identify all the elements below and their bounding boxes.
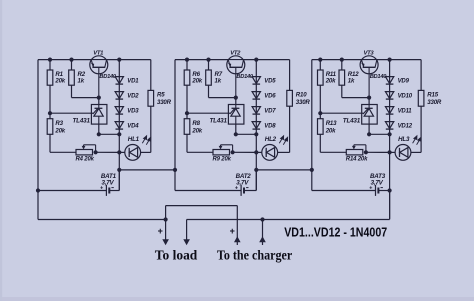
node BAT1 plus junction bbox=[36, 188, 40, 192]
node anode junction bbox=[97, 132, 101, 136]
wire series link BAT1- to BAT2+ bbox=[119, 169, 175, 171]
battery BAT3 3,7V bbox=[312, 190, 376, 192]
wire top rail (emitter side) bbox=[38, 59, 91, 61]
svg-text:BD140: BD140 bbox=[99, 74, 117, 80]
node diode chain top bbox=[117, 58, 121, 62]
node LED tap bbox=[388, 150, 392, 154]
wire charger plus link bbox=[166, 205, 238, 207]
wire battery BAT2 plus / left rail bbox=[174, 60, 176, 191]
wire TL431 ref bbox=[320, 112, 361, 114]
svg-text:3,7V: 3,7V bbox=[371, 180, 384, 187]
svg-text:R8: R8 bbox=[192, 120, 200, 127]
svg-text:20k: 20k bbox=[191, 127, 202, 134]
resistor R12 1k bbox=[341, 60, 343, 70]
diode VD8 1N4007 bbox=[252, 122, 260, 129]
wire wiper to diode chain / LED bbox=[366, 151, 390, 153]
wire TL431 ref bbox=[187, 112, 228, 114]
wire TL431 anode bbox=[98, 124, 100, 134]
node base junction bbox=[97, 96, 101, 100]
battery BAT2 3,7V bbox=[255, 170, 257, 191]
svg-text:R3: R3 bbox=[55, 120, 63, 127]
svg-text:R4 20k: R4 20k bbox=[76, 157, 95, 163]
svg-text:20k: 20k bbox=[54, 78, 65, 85]
diode VD4 1N4007 bbox=[115, 122, 123, 129]
node base junction bbox=[234, 96, 238, 100]
resistor R7 1k bbox=[208, 60, 210, 70]
node wiper junction bbox=[94, 150, 98, 154]
resistor R2 1k bbox=[71, 60, 73, 70]
node wiper junction bbox=[364, 150, 368, 154]
svg-text:VT2: VT2 bbox=[230, 50, 241, 56]
node series link bbox=[117, 168, 121, 172]
diode VD6 1N4007 bbox=[252, 92, 260, 99]
svg-text:HL3: HL3 bbox=[398, 136, 410, 143]
wire series link BAT2- to BAT3+ bbox=[256, 169, 312, 171]
wire wiper to diode chain / LED bbox=[233, 151, 257, 153]
wire battery BAT1 plus / left rail bbox=[37, 60, 39, 220]
svg-text:1k: 1k bbox=[348, 78, 355, 85]
svg-text:3,7V: 3,7V bbox=[236, 180, 249, 187]
wire TL431 anode bbox=[235, 124, 237, 134]
svg-text:R10: R10 bbox=[296, 92, 307, 99]
wire wiper to diode chain / LED bbox=[96, 151, 120, 153]
wire TL431 anode bbox=[368, 124, 370, 134]
svg-text:To load: To load bbox=[155, 248, 198, 263]
svg-text:+: + bbox=[100, 186, 103, 192]
resistor R5 330R bbox=[150, 60, 152, 91]
diode VD2 1N4007 bbox=[115, 92, 123, 99]
node load plus tap bbox=[164, 217, 168, 221]
svg-text:BD140: BD140 bbox=[236, 74, 254, 80]
wire to charger minus arrow bbox=[262, 220, 264, 246]
node charger minus tap bbox=[260, 217, 264, 221]
resistor R11 20k bbox=[319, 60, 321, 70]
node diode chain top bbox=[388, 58, 392, 62]
node ref junction bbox=[318, 111, 322, 115]
svg-text:330R: 330R bbox=[296, 99, 311, 106]
svg-text:VT1: VT1 bbox=[93, 50, 103, 56]
svg-text:HL2: HL2 bbox=[265, 136, 277, 143]
transistor VT1 BD140 (PNP) bbox=[90, 56, 108, 74]
wire pack plus bus bbox=[38, 219, 166, 221]
node series link bbox=[254, 168, 258, 172]
diode VD5 1N4007 bbox=[252, 77, 260, 84]
wire top rail (emitter side) bbox=[312, 59, 361, 61]
wire diode chain column bbox=[255, 60, 257, 191]
transistor VT3 BD140 (PNP) bbox=[360, 56, 378, 74]
svg-text:VD6: VD6 bbox=[264, 94, 276, 100]
svg-text:330R: 330R bbox=[157, 99, 172, 106]
svg-text:VD3: VD3 bbox=[127, 109, 139, 115]
diode VD12 1N4007 bbox=[385, 122, 393, 129]
resistor R6 20k bbox=[186, 60, 188, 70]
svg-text:VD8: VD8 bbox=[264, 124, 276, 130]
svg-text:To the charger: To the charger bbox=[217, 248, 292, 263]
svg-text:R9 20k: R9 20k bbox=[213, 157, 232, 163]
battery BAT1 3,7V bbox=[118, 170, 120, 191]
wire top rail (emitter side) bbox=[175, 59, 228, 61]
svg-text:+: + bbox=[369, 186, 372, 192]
svg-text:1k: 1k bbox=[215, 78, 222, 85]
potentiometer R4 20k bbox=[76, 150, 93, 155]
node base junction bbox=[367, 96, 371, 100]
svg-text:R15: R15 bbox=[427, 92, 438, 99]
svg-text:20k: 20k bbox=[325, 78, 336, 85]
potentiometer R9 20k bbox=[213, 150, 230, 155]
wire battery BAT3 plus / left rail bbox=[311, 60, 313, 191]
svg-text:+: + bbox=[158, 226, 163, 236]
svg-text:TL431: TL431 bbox=[343, 117, 361, 124]
svg-text:VD7: VD7 bbox=[264, 109, 276, 115]
svg-text:VD1: VD1 bbox=[127, 79, 139, 85]
svg-text:TL431: TL431 bbox=[72, 117, 90, 124]
potentiometer R14 20k bbox=[346, 150, 363, 155]
wire to load plus arrow bbox=[165, 220, 167, 243]
svg-text:VD10: VD10 bbox=[398, 94, 413, 100]
wire to load minus arrow bbox=[186, 220, 188, 243]
svg-text:R13: R13 bbox=[326, 120, 337, 127]
diode VD7 1N4007 bbox=[252, 107, 260, 114]
svg-text:VD5: VD5 bbox=[264, 79, 276, 85]
node ref junction bbox=[185, 111, 189, 115]
svg-text:20k: 20k bbox=[54, 127, 65, 134]
svg-text:VD12: VD12 bbox=[398, 124, 413, 130]
LED HL1 bbox=[119, 151, 125, 153]
diode VD1 1N4007 bbox=[115, 77, 123, 84]
node R top junction bbox=[48, 58, 52, 62]
resistor R15 330R bbox=[420, 60, 422, 91]
svg-text:R14 20k: R14 20k bbox=[346, 157, 368, 163]
svg-text:VD9: VD9 bbox=[398, 79, 410, 85]
IC TL431 shunt regulator bbox=[368, 98, 370, 105]
IC TL431 shunt regulator bbox=[98, 98, 100, 105]
resistor R1 20k bbox=[49, 60, 51, 70]
resistor R3 20k bbox=[49, 113, 51, 119]
wire collector rail bbox=[377, 59, 421, 61]
resistor R13 20k bbox=[319, 113, 321, 119]
LED HL3 bbox=[390, 151, 396, 153]
wire TL431 ref bbox=[50, 112, 91, 114]
node R top junction bbox=[185, 58, 189, 62]
node LED tap bbox=[254, 150, 258, 154]
svg-text:VT3: VT3 bbox=[364, 50, 375, 56]
node wiper junction bbox=[231, 150, 235, 154]
wire diode chain column bbox=[389, 60, 391, 219]
svg-text:20k: 20k bbox=[191, 78, 202, 85]
node anode junction bbox=[234, 132, 238, 136]
svg-text:BD140: BD140 bbox=[370, 74, 388, 80]
resistor R8 20k bbox=[186, 113, 188, 119]
svg-text:VD2: VD2 bbox=[127, 94, 139, 100]
wire collector rail bbox=[107, 59, 151, 61]
svg-text:+: + bbox=[230, 226, 235, 236]
diode VD11 1N4007 bbox=[385, 107, 393, 114]
node BAT3 minus junction bbox=[388, 188, 392, 192]
wire pack minus bus bbox=[187, 219, 390, 221]
LED HL2 bbox=[256, 151, 262, 153]
svg-text:330R: 330R bbox=[427, 99, 442, 106]
IC TL431 shunt regulator bbox=[235, 98, 237, 105]
node LED tap bbox=[117, 150, 121, 154]
wire collector rail bbox=[244, 59, 290, 61]
svg-text:HL1: HL1 bbox=[128, 136, 140, 143]
diode VD3 1N4007 bbox=[115, 107, 123, 114]
svg-text:3,7V: 3,7V bbox=[102, 180, 115, 187]
svg-text:+: + bbox=[235, 186, 238, 192]
wire to charger plus arrow bbox=[236, 206, 238, 245]
svg-text:VD1...VD12 - 1N4007: VD1...VD12 - 1N4007 bbox=[284, 224, 387, 239]
wire diode chain column bbox=[118, 60, 120, 191]
resistor R10 330R bbox=[289, 60, 291, 91]
svg-text:TL431: TL431 bbox=[209, 117, 227, 124]
node R top junction bbox=[318, 58, 322, 62]
svg-text:R5: R5 bbox=[157, 92, 165, 99]
node diode chain top bbox=[254, 58, 258, 62]
transistor VT2 BD140 (PNP) bbox=[227, 56, 245, 74]
diode VD10 1N4007 bbox=[385, 92, 393, 99]
node ref junction bbox=[48, 111, 52, 115]
svg-text:VD11: VD11 bbox=[398, 109, 413, 115]
svg-text:VD4: VD4 bbox=[127, 124, 139, 130]
svg-text:1k: 1k bbox=[78, 78, 85, 85]
svg-text:20k: 20k bbox=[325, 127, 336, 134]
diode VD9 1N4007 bbox=[385, 77, 393, 84]
node anode junction bbox=[367, 132, 371, 136]
